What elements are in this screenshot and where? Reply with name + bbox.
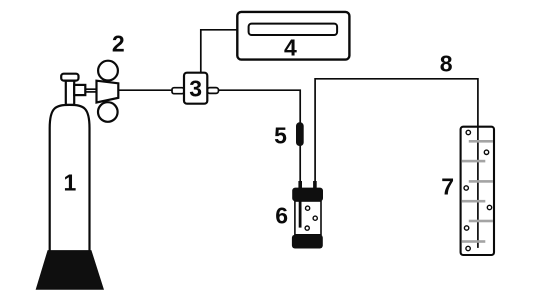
wire 8: component 6 to component 7 (315, 79, 478, 248)
component 4: display window (249, 24, 338, 35)
svg-text:8: 8 (440, 50, 453, 76)
svg-text:5: 5 (274, 122, 287, 148)
component 7: bubble e (464, 226, 468, 230)
component 7: bubble d (487, 205, 491, 209)
component 7: column body (461, 127, 494, 255)
component 1: valve handle (61, 74, 78, 81)
component 7: bubble b (484, 150, 488, 154)
component 7: bubble f (466, 246, 470, 250)
component 1: outlet fitting (74, 85, 85, 95)
component 6: top cap (292, 188, 323, 202)
component 2: regulator top gauge (98, 61, 118, 81)
svg-text:6: 6 (275, 202, 288, 228)
component 4: flow meter box (237, 12, 349, 60)
component 2: regulator body (97, 81, 119, 103)
component 6: bottom cap (292, 235, 323, 249)
wire: component 3 to component 4 (201, 30, 238, 73)
component 1: valve neck (66, 81, 74, 105)
component 7: baffle 4 (462, 200, 485, 203)
component 6: vessel body (295, 201, 321, 235)
component 7: baffle 6 (462, 240, 485, 243)
component 7: inlet tube (continuation of wire 8 inside column) (477, 127, 479, 248)
component 1: gas cylinder body (50, 105, 90, 251)
wire: regulator to component 3 (118, 89, 172, 91)
component 7: bubble a (466, 130, 470, 134)
component 5: inline filter (black capsule) (296, 122, 304, 146)
svg-text:3: 3 (189, 76, 202, 102)
component 6: right inlet ferrule (313, 181, 317, 189)
component 1: cylinder base (black trapezoid) (36, 251, 103, 290)
svg-text:2: 2 (112, 30, 125, 56)
component 7: baffle 5 (469, 220, 493, 223)
component 7: baffle 3 (469, 180, 493, 183)
svg-text:7: 7 (441, 173, 454, 199)
component 6: left inlet ferrule (298, 181, 302, 189)
svg-text:4: 4 (284, 35, 297, 61)
component 7: bubble c (464, 186, 468, 190)
component 6: bubble c (305, 226, 309, 230)
component 3: left port tab (172, 88, 184, 94)
component 3: right port tab (207, 88, 218, 94)
svg-text:1: 1 (64, 170, 77, 196)
component 6: bubble a (306, 206, 310, 210)
component 7: baffle 2 (462, 160, 485, 163)
pipe: cylinder outlet to regulator (double line) (85, 89, 96, 92)
wire: component 3 to component 6 through component 5 (219, 90, 300, 182)
component 6: dip tube (299, 201, 302, 228)
component 3: valve body (184, 73, 207, 104)
component 7: baffle 1 (469, 140, 493, 143)
component 6: bubble b (313, 216, 317, 220)
component 2: regulator bottom gauge (98, 102, 118, 122)
